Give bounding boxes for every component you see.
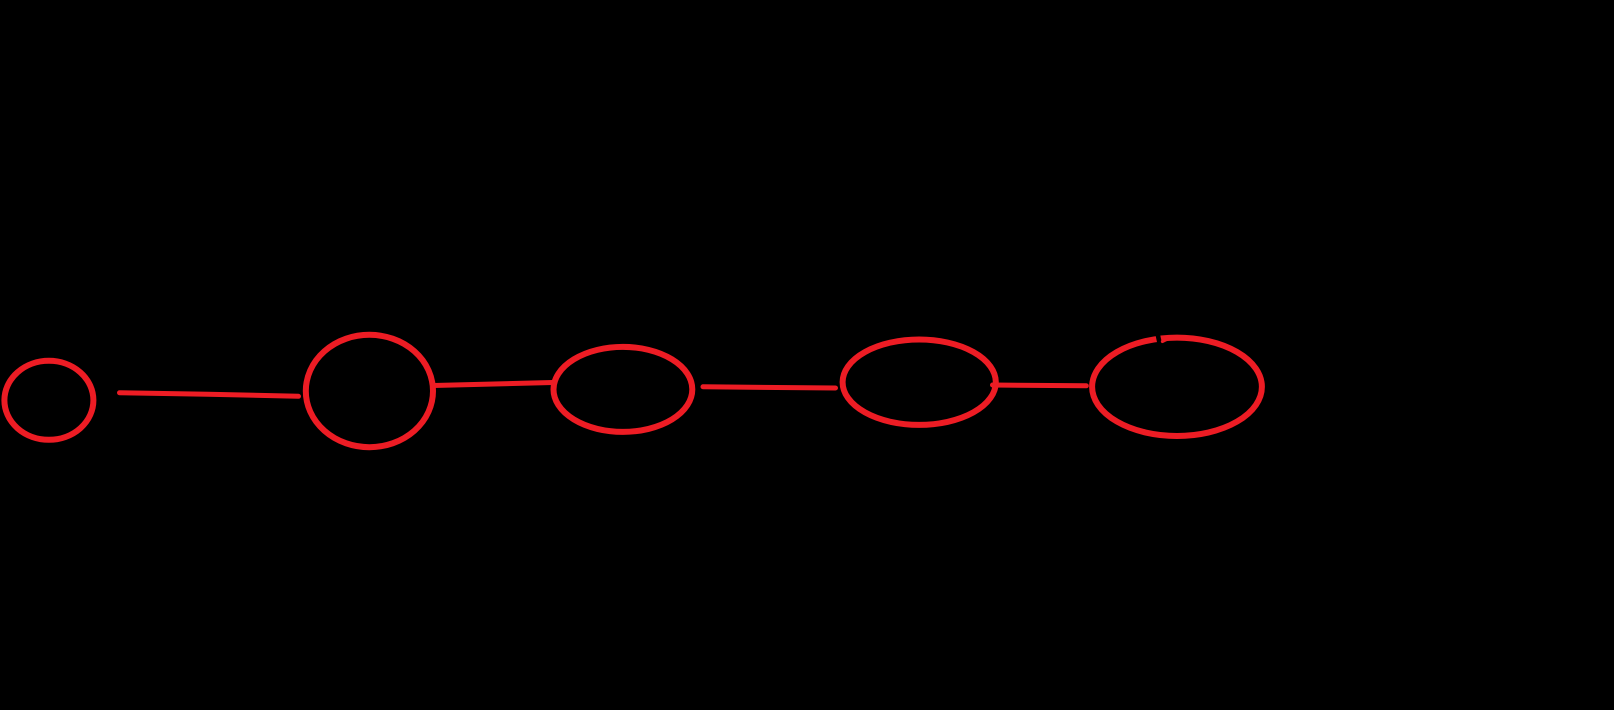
wire A-B [120,393,299,397]
node C (ellipse) [554,347,693,432]
node A (small circle, far left) [4,361,93,440]
node B (large circle) [306,335,433,447]
wire D-E [993,383,1087,389]
wire C-D [703,387,836,388]
node D (wide ellipse) [843,340,996,425]
node E (widest ellipse, with pen gap at top-left) [1092,329,1262,436]
wire B-C [434,383,553,386]
